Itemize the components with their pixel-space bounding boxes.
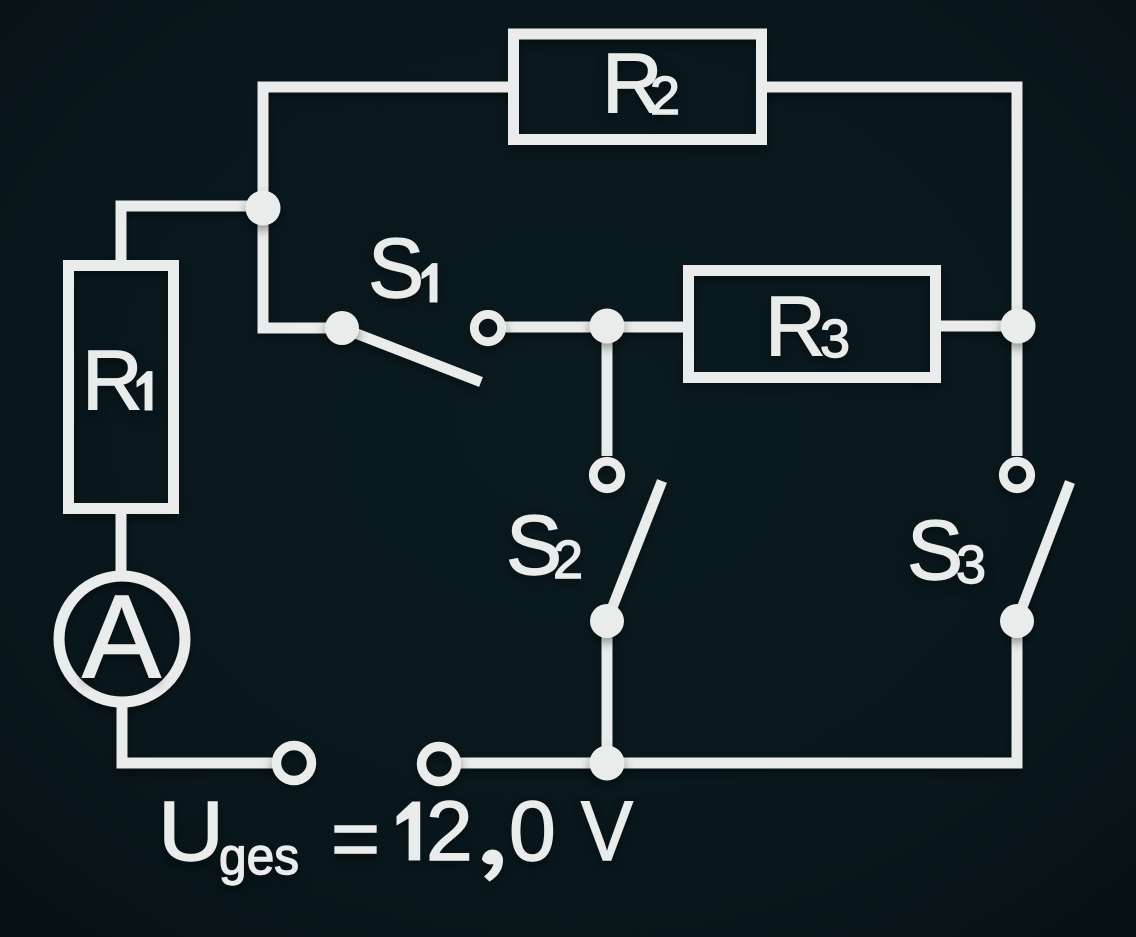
switch S3 pole dot <box>1000 604 1034 638</box>
switch S2 open contact circle <box>593 461 620 488</box>
label comma <box>482 850 503 882</box>
node C junction dot <box>1001 309 1036 344</box>
svg-text:U: U <box>158 784 224 878</box>
ammeter A circle <box>59 576 185 702</box>
wire right battery terminal to bottom node <box>460 758 612 769</box>
wire switch S1 contact to node B <box>505 322 612 333</box>
resistor R3 body <box>689 271 936 378</box>
svg-text:V: V <box>581 784 633 878</box>
wire node C down to S3 open contact <box>1012 326 1023 456</box>
resistor R1 body <box>69 266 174 509</box>
wire R1 bottom to ammeter top <box>116 508 127 572</box>
wire bottom node up to switch S2 pole <box>602 621 613 763</box>
svg-text:3: 3 <box>956 535 986 595</box>
switch S3 open contact circle <box>1003 461 1030 488</box>
wire from node A down to corner and right to switch S1 pole <box>263 208 342 328</box>
node B junction dot <box>590 309 625 344</box>
svg-text:2: 2 <box>650 66 680 126</box>
label digit 1 <box>397 802 420 860</box>
svg-text:S: S <box>907 503 963 597</box>
wire R3 right to node C <box>936 321 1018 332</box>
svg-text:2: 2 <box>426 784 473 878</box>
wire node B to resistor R3 left <box>607 322 684 333</box>
wire R2 right to top-right corner and down to node C <box>762 87 1017 326</box>
svg-text:ges: ges <box>219 828 299 886</box>
svg-text:A: A <box>82 571 161 703</box>
svg-text:0: 0 <box>509 784 556 878</box>
wire from R2 left terminal to top-left corner and down to node A <box>263 87 513 208</box>
wire S3 pole down to corner and left to bottom node <box>607 621 1017 763</box>
switch S3 blade <box>1017 482 1070 621</box>
bottom junction node dot <box>590 746 625 781</box>
wire from node A left to corner and down to resistor R1 top <box>121 206 268 262</box>
open terminal circle left of source gap <box>277 746 312 781</box>
switch S2 pole dot <box>590 604 624 638</box>
switch S1 blade <box>342 328 481 382</box>
svg-text:S: S <box>368 221 424 315</box>
svg-text:R: R <box>765 279 826 373</box>
node A junction dot <box>246 191 281 226</box>
switch S1 pole dot <box>325 311 359 345</box>
switch S2 blade <box>607 481 662 621</box>
switch S1 open contact circle <box>474 314 501 341</box>
svg-text:R: R <box>82 333 143 427</box>
wire S2 contact up to node B <box>602 326 613 456</box>
resistor R2 body <box>514 34 762 140</box>
open terminal circle right of source gap <box>422 747 457 782</box>
svg-text:2: 2 <box>553 530 583 590</box>
wire ammeter bottom to corner and right to left battery terminal <box>122 705 273 763</box>
svg-text:=: = <box>331 791 380 885</box>
svg-text:3: 3 <box>820 309 850 369</box>
